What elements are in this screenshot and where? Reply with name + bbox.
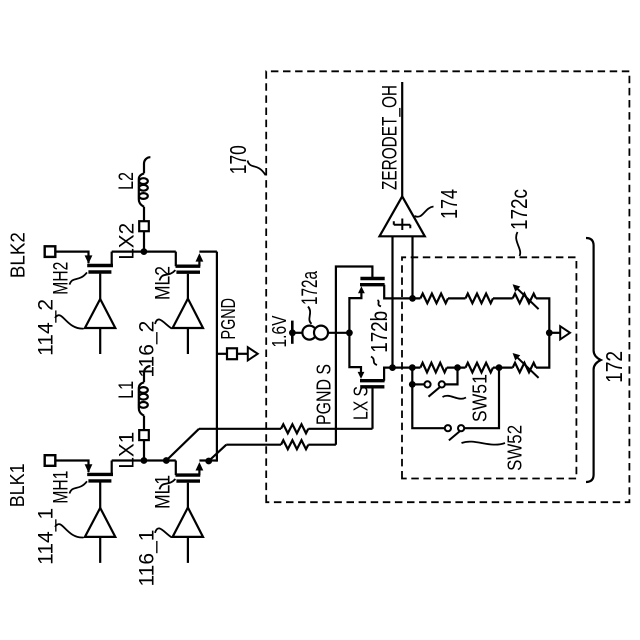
wire right 172b drain [384, 285, 420, 299]
wire bus below ML2 [199, 251, 217, 253]
transistor ML2 channel bar [176, 265, 201, 268]
wire current source to common node [328, 332, 349, 334]
wire chain left bottom [536, 333, 549, 368]
pointer tilde 172a [308, 307, 312, 324]
svg-text:MH1: MH1 [50, 471, 73, 504]
transistor ML1 gate bar [176, 479, 200, 482]
node dot on 1.6V bar [289, 329, 296, 336]
svg-text:BLK1: BLK1 [6, 463, 29, 507]
resistor PGND S sense [281, 440, 308, 449]
wire source path to right 172b transistor [349, 292, 361, 333]
wire LX S to 172b left gate [371, 388, 373, 429]
arrow reference output [560, 326, 570, 339]
transistor ML2 gate bar [176, 271, 200, 274]
wire inductor L1 tail with hook [144, 366, 150, 382]
svg-text:172a: 172a [297, 270, 322, 305]
svg-text:BLK2: BLK2 [6, 232, 29, 278]
wire bus LX2 segment [112, 251, 176, 253]
wire to SW51 [412, 383, 424, 385]
arrow into left 172b source [358, 372, 365, 379]
wire LX1 to inductor box [143, 440, 145, 460]
svg-text:114_1: 114_1 [35, 508, 58, 565]
svg-text:116_2: 116_2 [135, 321, 158, 378]
node LX2 dot [141, 248, 148, 255]
resistor chain right second [466, 294, 494, 304]
wire box to inductor L2 [143, 207, 145, 221]
wire gate lead ML2 [187, 274, 189, 299]
op-amp comparator 174 [380, 196, 425, 236]
transistor MH1 gate bar [88, 479, 111, 482]
wire PGND terminal branch [217, 353, 227, 355]
node dot common source [346, 329, 353, 336]
wire LX S vertical run [199, 428, 373, 430]
arrow into MH2 drain [85, 255, 93, 263]
svg-text:LX1: LX1 [115, 432, 138, 469]
wire gate lead MH1 [99, 483, 101, 508]
wire SW52 branch [412, 384, 445, 428]
wire SW51 tap [411, 368, 413, 385]
pointer squiggle 114_2 [55, 315, 84, 328]
wire SW52 to dot C [464, 368, 499, 429]
svg-text:LX2: LX2 [115, 223, 138, 260]
op-amp driver 114_2 [85, 299, 115, 328]
svg-text:PGND S: PGND S [314, 364, 336, 425]
pointer squiggle SW52 [462, 442, 506, 445]
transistor ML1 channel bar [176, 473, 201, 476]
node LX1 dot [141, 457, 148, 464]
wire source path to left 172b transistor [349, 333, 361, 373]
arrow ML1 source to PGND bus [196, 462, 204, 470]
arrow into right 172b source [358, 286, 365, 293]
node dot SW51 tap A [409, 364, 416, 371]
terminal square BLK1 input [45, 455, 56, 466]
pointer squiggle ML2 [160, 270, 176, 280]
wire chain right bottom [536, 298, 549, 332]
terminal box LX2 [139, 221, 149, 231]
variable resistor left [513, 363, 536, 373]
wire ML2 source lead [198, 260, 200, 267]
arrow variable resistor left [517, 357, 539, 378]
pointer squiggle 172c [516, 232, 520, 256]
node dot input minus [389, 364, 396, 371]
transistor MH1 channel bar [87, 473, 113, 476]
wire gate lead ML1 [187, 483, 189, 508]
pointer squiggle 116_1 [155, 528, 172, 537]
svg-text:1.6V: 1.6V [269, 315, 291, 348]
pointer squiggle ML1 [160, 479, 176, 489]
pointer squiggle 116_2 [155, 319, 172, 328]
wire box to inductor L1 [143, 416, 145, 430]
inductor L2 spring [139, 173, 144, 206]
pointer squiggle MH2 [70, 272, 88, 284]
svg-text:174: 174 [436, 189, 462, 219]
wire gate lead MH2 [99, 274, 101, 299]
terminal square BLK2 input [45, 246, 56, 257]
svg-text:114_2: 114_2 [35, 299, 58, 356]
svg-text:116_1: 116_1 [135, 530, 158, 587]
transistor 172b left channel bar [360, 379, 385, 382]
transistor MH2 channel bar [87, 264, 113, 267]
pointer squiggle 114_1 [55, 524, 84, 537]
wire left 172b drain [384, 368, 420, 381]
wire bus LX1 segment [112, 459, 176, 461]
variable resistor right [513, 294, 536, 304]
pointer squiggle SW51 [443, 396, 467, 399]
svg-text:ML2: ML2 [151, 266, 174, 300]
wire PGND S horizontal to right [336, 267, 373, 445]
switch SW51 [424, 381, 430, 387]
wire driver 116_1 input tail [187, 537, 189, 563]
pointer squiggle 170 [248, 161, 266, 176]
arrow ML2 source to PGND bus [196, 253, 204, 261]
wire BLK1 square to MH1 drain [55, 461, 88, 473]
wire PGND rail ML1 source to ML2 source [216, 252, 218, 462]
wire comparator input plus [411, 236, 413, 298]
node dot reference output [546, 329, 553, 336]
dashed box 172c [402, 257, 576, 478]
op-amp driver 116_2 [173, 299, 203, 328]
pointer tilde 172b right [378, 300, 382, 306]
wire reference output stub [549, 332, 560, 334]
transistor 172b left gate bar [360, 385, 384, 388]
brace 172 [586, 238, 601, 482]
wire inductor L2 tail with hook [144, 157, 150, 173]
wire chain right to variable resistor [493, 297, 513, 299]
pointer tilde 172b left [371, 357, 377, 366]
svg-text:MH2: MH2 [50, 262, 73, 295]
wire MH2 source to bus [111, 252, 113, 266]
resistor chain left second [466, 363, 494, 373]
node dot PGND sense tap [205, 458, 212, 465]
transistor 172b right gate bar [360, 277, 384, 280]
wire PGND S diagonal [209, 445, 227, 461]
ground arrow PGND [248, 347, 258, 360]
wire ML2 drain lead [175, 252, 177, 267]
op-amp driver 116_1 [173, 508, 203, 537]
node dot D [409, 381, 416, 388]
wire driver 114_2 input tail [99, 328, 101, 354]
transistor MH2 gate bar [88, 270, 111, 273]
svg-text:LX S: LX S [351, 386, 373, 420]
wire LX S diagonal [166, 429, 199, 461]
pointer squiggle 174 [415, 207, 434, 217]
hysteresis symbol [394, 219, 411, 231]
pointer squiggle MH1 [70, 481, 88, 493]
node dot input plus [409, 295, 416, 302]
wire ML1 source lead [198, 469, 200, 476]
arrow into MH1 drain [85, 464, 93, 472]
wire chain right middle [448, 297, 466, 299]
wire driver 116_2 input tail [187, 328, 189, 354]
inductor L1 spring [139, 382, 144, 415]
wire MH1 source to bus [111, 461, 113, 475]
wire 1.6V to current source [292, 332, 302, 334]
terminal box LX1 [139, 430, 149, 440]
resistor LX S sense [281, 424, 308, 433]
svg-text:PGND: PGND [218, 298, 240, 340]
svg-text:170: 170 [225, 145, 251, 174]
svg-text:172: 172 [601, 351, 627, 383]
wire PGND S vertical run [226, 444, 336, 446]
wire PGND square to ground arrow [237, 353, 248, 355]
terminal square PGND [227, 348, 237, 359]
svg-text:172b: 172b [366, 311, 392, 353]
wire SW51 to dot B [445, 368, 458, 385]
wire LX2 to inductor box [143, 231, 145, 251]
transistor 172b right channel bar [360, 283, 385, 286]
wire ML1 drain lead [175, 461, 177, 476]
wire chain left + dot B [447, 367, 466, 369]
wire BLK2 square to MH2 drain [55, 252, 88, 264]
svg-text:172c: 172c [506, 189, 532, 230]
svg-text:ML1: ML1 [151, 475, 174, 509]
svg-text:SW51: SW51 [470, 374, 492, 422]
svg-text:SW52: SW52 [505, 425, 527, 471]
arrow variable resistor right [517, 288, 539, 309]
node dot LX sense tap on BLK1 bus [163, 457, 170, 464]
resistor chain right (from 172b right drain) [420, 294, 448, 304]
current source 172a circles [302, 326, 316, 340]
wire comparator input minus [391, 236, 393, 367]
switch SW52 [445, 425, 451, 431]
resistor chain left first [420, 363, 446, 373]
svg-text:L2: L2 [115, 172, 138, 190]
op-amp driver 114_1 [85, 508, 115, 537]
wire comparator output ZERODET_OH [401, 82, 403, 196]
wire bus below ML1 [199, 459, 217, 461]
wire chain left + dot C [493, 367, 513, 369]
dashed box 170 [266, 71, 629, 502]
supply bar 1.6V [291, 321, 294, 344]
svg-text:L1: L1 [115, 381, 138, 399]
wire driver 114_1 input tail [99, 537, 101, 563]
svg-text:ZERODET_OH: ZERODET_OH [379, 85, 402, 190]
